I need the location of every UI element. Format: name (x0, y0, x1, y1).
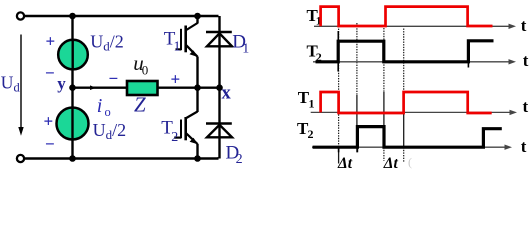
svg-text:y: y (57, 74, 66, 93)
label T1 (waveform A) (307, 6, 322, 28)
source V1 Ud/2 (58, 40, 88, 70)
svg-text:2: 2 (171, 130, 178, 145)
transistor T1 (176, 16, 198, 88)
svg-text:t: t (523, 97, 529, 116)
label t B1 (523, 97, 529, 116)
plus sign V2 (44, 112, 54, 131)
diode D2 (206, 88, 232, 159)
wire top rail (24, 15, 218, 17)
svg-text:Ud/2: Ud/2 (93, 120, 127, 142)
label t B2 (521, 137, 527, 156)
time axis A1 (314, 24, 516, 29)
waveform T2 A (black) (316, 41, 494, 62)
faint parenthesis (408, 155, 412, 169)
diode D1 (206, 16, 232, 88)
wire source branch (71, 16, 73, 159)
svg-text:+: + (171, 70, 181, 89)
plus sign u0 (171, 70, 181, 89)
svg-text:Δt: Δt (337, 155, 353, 172)
svg-text:Ud/2: Ud/2 (90, 31, 124, 53)
svg-text:1: 1 (242, 41, 249, 56)
label delta-t 1 (337, 155, 353, 172)
label io (97, 95, 111, 119)
node x dot left (194, 84, 201, 91)
svg-text:0: 0 (142, 63, 149, 78)
transistor T2 (174, 88, 198, 159)
minus sign V2 (45, 135, 55, 154)
svg-text:2: 2 (236, 152, 243, 167)
svg-text:Ud: Ud (1, 72, 21, 94)
svg-text:t: t (521, 137, 527, 156)
wire y to Z (73, 86, 127, 88)
label Ud (1, 72, 21, 94)
label D2 (226, 142, 243, 167)
time axis A2 (313, 59, 516, 64)
waveform T2 B (black) (313, 127, 502, 148)
wire Z to x (158, 86, 220, 88)
svg-text:−: − (45, 64, 55, 83)
label T2 (waveform A) (307, 42, 322, 64)
junction dot top source branch (69, 13, 76, 20)
svg-text:+: + (46, 32, 56, 51)
minus sign V1 (45, 64, 55, 83)
minus sign u0 (109, 69, 119, 88)
terminal bottom-left (17, 155, 24, 162)
marker line 2 (356, 23, 358, 152)
svg-text:−: − (45, 135, 55, 154)
time axis B2 (312, 145, 512, 150)
waveform T1 A (red) (321, 7, 493, 27)
junction dot bottom source branch (69, 155, 76, 162)
label D1 (232, 31, 249, 56)
svg-text:t: t (521, 16, 527, 35)
label T2 (161, 117, 178, 145)
svg-text:o: o (105, 105, 111, 119)
label u0 (133, 51, 148, 77)
terminal top-left (17, 12, 24, 19)
marker line 3 (383, 28, 385, 161)
marker line 1 (337, 26, 339, 164)
svg-text:1: 1 (174, 39, 181, 54)
marker line 4 (403, 29, 405, 163)
svg-text:+: + (44, 112, 54, 131)
label Ud/2 upper (90, 31, 124, 53)
svg-text:x: x (222, 84, 232, 104)
tick below axis A2 (338, 62, 468, 72)
svg-text:1: 1 (309, 97, 315, 111)
label T1 (waveform B) (298, 88, 315, 111)
svg-text:(: ( (408, 155, 412, 169)
svg-text:2: 2 (308, 127, 314, 141)
current arrow io on wire (90, 85, 96, 90)
label x (222, 84, 232, 104)
source V2 Ud/2 (57, 108, 89, 140)
load Z (127, 81, 158, 95)
svg-text:Δt: Δt (383, 155, 399, 172)
voltage arrow Ud (18, 35, 23, 136)
svg-text:i: i (97, 95, 103, 117)
tick below axis B2 at first delta-t (339, 147, 358, 152)
junction dot T2 emitter (194, 155, 201, 162)
waveform T1 B (red) (321, 92, 492, 113)
node x dot right (216, 84, 223, 91)
svg-text:t: t (523, 51, 529, 70)
label y (57, 74, 66, 93)
time axis B1 (311, 110, 517, 115)
label Ud/2 lower (93, 120, 127, 142)
label delta-t 2 (383, 155, 399, 172)
label t A1 (521, 16, 527, 35)
plus sign V1 (46, 32, 56, 51)
label T2 (waveform B) (297, 119, 314, 141)
label Z (134, 92, 146, 116)
svg-text:Z: Z (134, 92, 146, 116)
node y dot (69, 84, 76, 91)
label T1 (164, 29, 181, 55)
junction dot T1 collector (194, 13, 201, 20)
svg-text:−: − (109, 69, 119, 88)
label t A2 (523, 51, 529, 70)
wire bottom rail (24, 157, 218, 159)
